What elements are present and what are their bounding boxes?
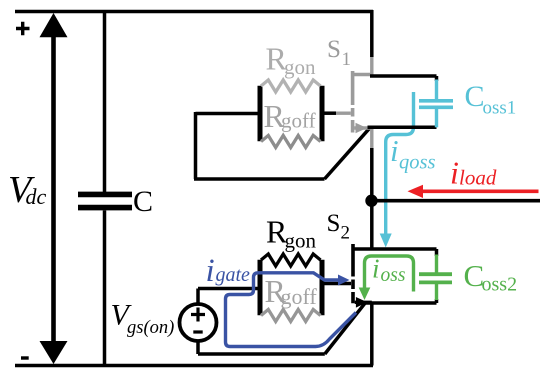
wire i_gate path (blue) — [226, 273, 357, 347]
voltage source Vgs(on) — [180, 304, 217, 341]
wire S1 kelvin diagonal — [325, 128, 370, 179]
wire top rail — [15, 10, 373, 14]
svg-text:S: S — [327, 36, 341, 63]
S2 channel bar segments — [351, 244, 355, 303]
gate box S1 (parallel resistor bars) — [260, 86, 322, 142]
resistor Rgon (S2, black zigzag) — [261, 254, 321, 266]
wire Coss2 loop top — [353, 247, 437, 251]
resistor Rgon (S1, light gray zigzag) — [261, 80, 321, 92]
wire Coss1 right top black stub — [435, 76, 439, 81]
wire i_oss loop (green) — [365, 256, 414, 292]
S1 gate lead gray — [336, 111, 351, 114]
wire Vgs+ to box — [198, 289, 260, 305]
wire S1 source to node black — [370, 148, 374, 201]
svg-text:oss: oss — [381, 265, 406, 286]
svg-text:S: S — [327, 210, 341, 237]
i_load arrow (red) — [422, 189, 539, 193]
wire S1 drain top black — [370, 10, 374, 57]
svg-text:i: i — [450, 155, 459, 191]
node junction dot — [365, 195, 377, 207]
wire Coss1 loop bottom — [368, 126, 437, 130]
Vdc measurement arrow — [51, 30, 56, 345]
S1 drain lead gray — [370, 56, 373, 75]
wire Coss2 loop bottom — [362, 301, 437, 305]
arrowhead i_oss — [359, 288, 371, 301]
svg-text:goff: goff — [281, 284, 318, 309]
transistor S1 (gray MOSFET) — [336, 56, 372, 150]
capacitor Coss2 (green) — [419, 255, 452, 301]
svg-text:qoss: qoss — [399, 152, 435, 174]
wire S2 kelvin diagonal — [325, 303, 366, 354]
transistor S2 (black MOSFET) — [353, 244, 372, 303]
S2 source stub — [355, 301, 372, 304]
wire bottom rail — [15, 364, 373, 368]
wire S1 gate lead black part — [322, 111, 336, 115]
S1 drain stub — [353, 73, 372, 76]
wire node to load — [372, 199, 541, 203]
S1 channel bar segments — [351, 71, 355, 133]
wire Coss2 right verticals black — [435, 249, 439, 303]
svg-text:gon: gon — [284, 55, 316, 79]
svg-text:i: i — [206, 253, 215, 289]
wire i_qoss cyan path (under black wires) — [386, 92, 414, 234]
svg-text:i: i — [390, 133, 399, 168]
svg-text:i: i — [372, 254, 380, 284]
wire Coss1 loop top — [370, 74, 437, 78]
wire S2 source to bottom rail — [370, 303, 374, 366]
svg-text:C: C — [133, 185, 153, 218]
svg-text:oss2: oss2 — [482, 274, 518, 296]
arrowhead i_gate — [338, 275, 350, 286]
minus sign bottom left — [21, 356, 29, 359]
resistor Rgoff (S2, gray zigzag) — [261, 310, 321, 322]
capacitor Coss1 (cyan) — [419, 80, 453, 128]
svg-text:C: C — [465, 80, 485, 113]
svg-text:gs(on): gs(on) — [127, 318, 174, 338]
capacitor C — [78, 192, 132, 198]
arrowhead i_qoss — [380, 234, 392, 248]
gate box S2 (parallel resistor bars) — [260, 260, 322, 316]
S1 source arrow — [356, 123, 367, 134]
S2 source arrow — [356, 297, 367, 308]
svg-text:oss1: oss1 — [483, 98, 517, 119]
wire Vgs- return — [198, 341, 325, 354]
svg-text:gon: gon — [285, 229, 317, 253]
plus sign top left — [16, 22, 30, 35]
wire S2 gate lead — [322, 282, 351, 286]
svg-text:gate: gate — [216, 264, 251, 286]
wire S1 gate loop bottom — [194, 177, 325, 181]
wire S1 gate loop left vertical — [194, 112, 198, 179]
wire S1 gate loop left lead — [196, 112, 261, 116]
svg-text:1: 1 — [342, 49, 352, 70]
S1 source stub — [354, 126, 372, 129]
svg-text:dc: dc — [26, 184, 47, 209]
wire node to S2 drain — [370, 201, 374, 250]
S1 source lead down gray — [370, 128, 373, 150]
resistor Rgoff (S1, gray zigzag) — [261, 136, 321, 148]
wire left vertical lower (from capacitor C) — [103, 211, 107, 366]
svg-text:load: load — [459, 166, 497, 190]
svg-text:2: 2 — [341, 223, 351, 244]
wire left vertical upper (to capacitor C) — [103, 12, 107, 193]
svg-text:goff: goff — [281, 109, 316, 133]
